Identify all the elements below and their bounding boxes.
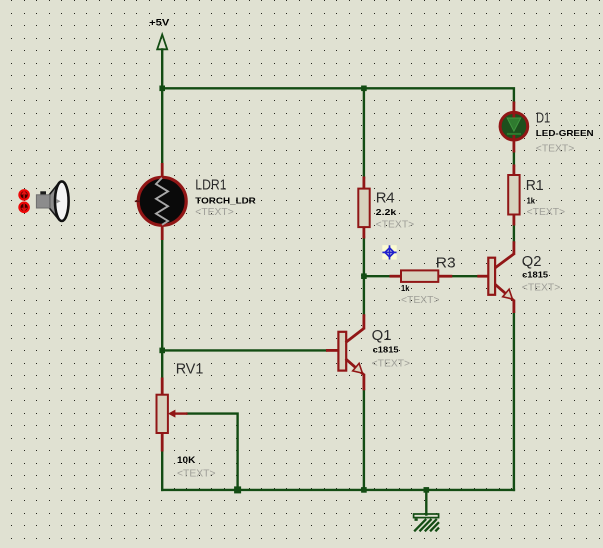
RV1 top pin xyxy=(161,378,164,396)
R3 right pin xyxy=(438,275,453,278)
R1 bottom pin xyxy=(513,214,516,226)
wire Q1 base net xyxy=(162,349,326,351)
wire R4 bottom to Q1 collector xyxy=(363,238,365,316)
junction LDR column at Q1 base wire xyxy=(159,348,165,354)
wire R3 left xyxy=(364,275,391,277)
LDR1 body xyxy=(135,177,186,225)
svg-text:<TEXT>: <TEXT> xyxy=(376,220,415,231)
LDR1 torch icon xyxy=(36,181,68,221)
wire LDR bottom to RV1 xyxy=(161,240,163,379)
wire ground stub xyxy=(425,490,427,515)
resistor R4 body xyxy=(358,189,369,228)
svg-text:<TEXT>: <TEXT> xyxy=(401,295,440,306)
svg-text:D1: D1 xyxy=(536,109,550,126)
R4 top pin xyxy=(362,177,365,190)
transistor Q2 xyxy=(477,241,514,313)
resistor R3 body xyxy=(401,270,438,282)
wire R1 to Q2 collector xyxy=(513,225,515,242)
svg-text:R4: R4 xyxy=(376,189,395,206)
svg-text:R3: R3 xyxy=(436,254,456,271)
R1 top pin xyxy=(513,165,516,177)
origin marker (blue crosshair) xyxy=(382,245,396,259)
svg-text:10K: 10K xyxy=(177,455,196,465)
svg-text:RV1: RV1 xyxy=(176,361,204,378)
junction wiper wire at bottom rail xyxy=(234,486,241,493)
svg-text:<TEXT>: <TEXT> xyxy=(527,207,566,218)
svg-text:LED-GREEN: LED-GREEN xyxy=(536,128,594,138)
D1 top pin xyxy=(513,102,516,118)
transistor Q1 xyxy=(326,314,364,390)
LDR1 torch brightness buttons xyxy=(19,190,28,212)
wire top rail to LED xyxy=(162,88,514,102)
wire RV1 bottom to rail xyxy=(161,451,163,490)
junction ground at bottom rail xyxy=(424,487,430,493)
D1 LED triangle and cathode bar xyxy=(507,118,521,131)
LED D1 body xyxy=(500,102,528,153)
RV1 bottom pin xyxy=(161,433,164,452)
LDR1 bottom pin xyxy=(161,226,164,241)
wire RV1 wiper to rail xyxy=(187,414,237,490)
svg-text:<TEXT>: <TEXT> xyxy=(195,207,234,218)
svg-text:<TEXT>: <TEXT> xyxy=(372,358,411,369)
LDR1 top pin xyxy=(161,163,164,178)
power +5V symbol xyxy=(149,18,169,50)
junction Q1 emitter at bottom rail xyxy=(361,487,367,493)
junction R4 column at R3 xyxy=(361,273,367,279)
ground symbol xyxy=(414,514,439,531)
svg-text:<TEXT>: <TEXT> xyxy=(536,143,575,154)
svg-text:1k: 1k xyxy=(401,283,410,293)
svg-text:1k: 1k xyxy=(527,195,536,205)
wire R4 top branch xyxy=(363,88,365,177)
svg-text:TORCH_LDR: TORCH_LDR xyxy=(195,195,256,205)
svg-text:<TEXT>: <TEXT> xyxy=(522,282,561,293)
wire Q1 emitter to rail xyxy=(363,390,365,490)
svg-text:c1815: c1815 xyxy=(522,270,548,280)
svg-text:<TEXT>: <TEXT> xyxy=(177,468,216,479)
resistor R1 body xyxy=(508,175,519,215)
potentiometer RV1 body xyxy=(157,395,168,433)
wire LED to R1 xyxy=(513,152,515,166)
RV1 wiper arrow xyxy=(168,410,188,418)
wire +5V to LDR top xyxy=(161,50,163,165)
wire Q2 emitter to bottom rail xyxy=(513,313,515,490)
R4 bottom pin xyxy=(362,227,365,239)
svg-text:2.2k: 2.2k xyxy=(376,207,397,217)
svg-text:c1815: c1815 xyxy=(373,345,399,355)
svg-text:LDR1: LDR1 xyxy=(195,176,226,193)
wire R3 right to Q2 base xyxy=(452,275,478,277)
junction top rail at LDR column xyxy=(159,86,165,92)
D1 bottom pin xyxy=(513,135,516,153)
svg-text:Q1: Q1 xyxy=(372,327,392,344)
svg-text:+5V: +5V xyxy=(149,18,169,28)
svg-text:Q2: Q2 xyxy=(522,253,542,270)
svg-text:R1: R1 xyxy=(526,177,544,194)
junction top rail at R4 column xyxy=(361,86,367,92)
wire bottom rail xyxy=(162,489,514,491)
R3 left pin xyxy=(390,275,402,278)
